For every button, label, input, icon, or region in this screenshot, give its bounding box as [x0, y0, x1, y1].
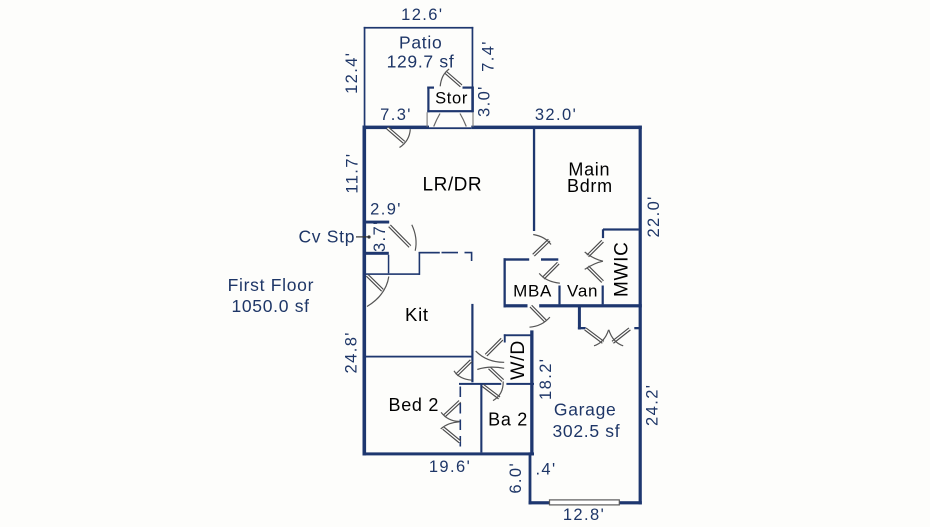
- door arc: garage center: [594, 330, 609, 346]
- wall: CvStp closet bottom stub: [363, 252, 389, 255]
- wall: Ba2 left divider: [480, 384, 482, 452]
- dashed: kitchen boundary horizontal: [442, 253, 472, 261]
- svg-text:Van: Van: [567, 282, 598, 301]
- door leaf: garage double door right: [613, 329, 630, 342]
- door leaf: kitchen closet door: [367, 275, 382, 290]
- wall: closet right thin: [388, 255, 390, 273]
- door arc: W/D door: [476, 351, 505, 362]
- door arc: Bed2 door lower: [441, 422, 460, 429]
- wall: left exterior: [363, 126, 367, 456]
- wall: divider LR-DR / Main Bdrm: [533, 129, 535, 231]
- wall: counter step horizontal: [419, 252, 440, 254]
- svg-text:24.8': 24.8': [343, 331, 361, 373]
- wall: garage bottom: [529, 501, 642, 504]
- svg-text:129.7 sf: 129.7 sf: [387, 51, 455, 71]
- wall: Kit / Bed2 divider: [364, 356, 473, 358]
- door leaf: stor door: [446, 72, 462, 86]
- wall: counter step vertical: [419, 252, 421, 275]
- door arc: entry at top wall: [400, 129, 411, 147]
- svg-text:7.3': 7.3': [380, 106, 412, 124]
- door slash: patio entry right: [460, 114, 466, 127]
- svg-text:3.7': 3.7': [371, 220, 389, 252]
- Cv Stp pointer arrow: [356, 235, 371, 238]
- svg-text:Bed 2: Bed 2: [389, 395, 440, 415]
- svg-text:W/D: W/D: [507, 340, 529, 380]
- door arc: kitchen closet door: [367, 277, 389, 307]
- door leaf: Main Bdrm door: [534, 240, 550, 255]
- door leaf: hall door near Bed2 top: [457, 361, 472, 375]
- wall: closet bottom / counter line: [363, 273, 420, 275]
- stor box top right segment: [463, 87, 474, 89]
- wall: MBA left: [504, 258, 506, 307]
- wall: MBA top right segment: [541, 258, 558, 260]
- wall: top exterior right segment: [471, 126, 642, 130]
- wall: CvStp closet top stub: [364, 221, 389, 224]
- wall: garage top right segment: [634, 327, 639, 329]
- wall: MBA top left segment: [504, 258, 530, 260]
- wall: y384 left segment: [459, 383, 501, 385]
- svg-text:32.0': 32.0': [535, 106, 577, 124]
- svg-text:11.7': 11.7': [344, 153, 362, 194]
- door arc: hall door near Bed2 top: [454, 371, 472, 380]
- stor box bottom: [427, 110, 473, 112]
- wall: mid vertical Kit/hall: [471, 304, 473, 382]
- svg-text:12.4': 12.4': [343, 52, 361, 94]
- wall: entry threshold under stor: [429, 127, 471, 129]
- wall: garage left lower: [529, 452, 532, 504]
- wall: right exterior: [639, 126, 642, 505]
- wall: W/D top-left stub: [504, 334, 506, 342]
- wall: Van right divider / MWIC lower: [602, 286, 604, 305]
- door arc: hall second arc near W/D: [477, 367, 504, 369]
- door leaf: garage double door left: [585, 329, 603, 342]
- door leaf: W/D door: [486, 339, 502, 355]
- door arc: Main Bdrm door: [533, 235, 551, 245]
- garage door sill: [550, 500, 620, 505]
- svg-text:First Floor: First Floor: [228, 275, 314, 295]
- dashed: Bed2 door hinge line: [459, 387, 461, 453]
- door arc: MBA door: [539, 273, 560, 283]
- svg-text:6.0': 6.0': [507, 462, 525, 494]
- wall: hall bottom right segment: [539, 304, 642, 307]
- svg-text:1050.0 sf: 1050.0 sf: [231, 296, 309, 316]
- walls: [363, 87, 642, 505]
- wall: MWIC left upper: [602, 229, 604, 238]
- door leaf: MWIC double door lower: [588, 267, 603, 282]
- door leaf: hall door to W/D corridor: [531, 306, 546, 321]
- wall: garage top stub vertical: [578, 307, 581, 330]
- svg-text:Cv Stp: Cv Stp: [298, 226, 355, 246]
- svg-text:MBA: MBA: [513, 282, 552, 301]
- svg-text:.4': .4': [535, 460, 556, 478]
- svg-text:MWIC: MWIC: [612, 241, 633, 297]
- svg-text:7.4': 7.4': [479, 40, 497, 72]
- wall: top exterior left segment: [363, 126, 430, 130]
- door leaf: MBA door: [543, 263, 558, 278]
- svg-text:18.2': 18.2': [537, 358, 555, 400]
- dashed lines: [442, 253, 472, 452]
- door leaf: entry at top wall: [388, 128, 405, 142]
- door slash: patio entry left: [434, 114, 440, 127]
- svg-text:Stor: Stor: [435, 90, 468, 108]
- door arc: Ba2 door: [493, 382, 503, 401]
- door leaf: Ba2 door: [483, 385, 500, 398]
- door arc: stor door: [440, 69, 449, 86]
- svg-text:Patio: Patio: [399, 33, 442, 53]
- door arc: Bed2 door upper: [441, 412, 459, 421]
- door leaf: hall second leaf near W/D: [489, 368, 503, 381]
- svg-text:Bdrm: Bdrm: [567, 176, 613, 196]
- door leaf: Cv Stp door: [390, 226, 411, 247]
- stor box top left segment: [427, 87, 434, 89]
- door arc: Cv Stp door: [412, 225, 416, 251]
- wall: hall bottom left segment: [504, 304, 528, 307]
- svg-text:Ba 2: Ba 2: [488, 410, 528, 430]
- svg-text:3.0': 3.0': [476, 85, 494, 117]
- door jamb: patio entry left: [426, 112, 428, 127]
- door leaves: each drawn as thick gray line with white core: [367, 69, 630, 442]
- svg-text:24.2': 24.2': [643, 384, 661, 426]
- wall: garage top left segment: [578, 327, 586, 329]
- svg-text:LR/DR: LR/DR: [423, 175, 483, 196]
- door leaf: MWIC double door upper: [588, 241, 603, 256]
- door leaf: Bed2 door upper: [444, 401, 460, 416]
- door leaf: Bed2 door lower: [443, 428, 460, 442]
- wall: y384 right segment Ba2 top: [506, 383, 534, 385]
- stor box left: [427, 87, 429, 113]
- door arc: MWIC upper: [585, 252, 603, 261]
- wall: Van left divider: [558, 286, 560, 305]
- svg-text:2.9': 2.9': [370, 201, 402, 219]
- wall: MWIC top: [603, 228, 639, 230]
- svg-text:Kit: Kit: [405, 304, 429, 325]
- svg-text:19.6': 19.6': [429, 458, 471, 476]
- door arc: MWIC lower: [585, 261, 603, 269]
- svg-text:12.6': 12.6': [401, 6, 443, 24]
- door arc: hall door to W/D corridor: [530, 317, 550, 327]
- patio outline: [364, 27, 474, 126]
- wall: garage left upper: [530, 330, 533, 455]
- wall: bottom Bed2/Ba2: [363, 452, 535, 455]
- stor box right: [471, 87, 474, 113]
- wall: W/D top: [504, 334, 532, 336]
- svg-text:302.5 sf: 302.5 sf: [552, 421, 620, 441]
- svg-text:Garage: Garage: [554, 400, 617, 420]
- door jamb: patio entry right: [472, 112, 474, 127]
- svg-text:12.8': 12.8': [563, 506, 605, 524]
- svg-text:22.0': 22.0': [645, 195, 663, 237]
